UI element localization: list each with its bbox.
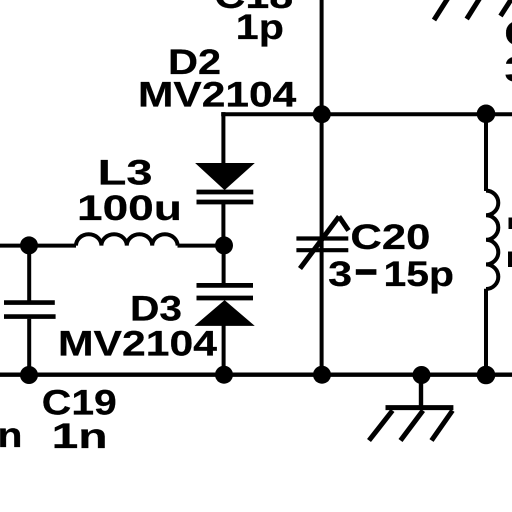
- wire vertical from C18 through C20 to bottom: [320, 0, 324, 375]
- capacitor C19 plates: [4, 303, 56, 317]
- svg-text:3: 3: [328, 254, 352, 294]
- wire right branch bottom: [484, 289, 488, 375]
- wire L3 to middle node: [178, 244, 225, 248]
- wire left input to L3: [0, 244, 76, 248]
- wire top horizontal net: [221, 112, 512, 116]
- label partial right coil line2: [508, 252, 512, 268]
- node junction top C20: [313, 105, 331, 123]
- svg-text:D3: D3: [130, 289, 182, 329]
- wire D2 top corner vertical: [221, 112, 225, 164]
- diode D2 cathode bars: [197, 192, 254, 202]
- wire bottom horizontal net: [0, 373, 512, 377]
- svg-text:MV2104: MV2104: [138, 75, 297, 115]
- svg-text:1p: 1p: [236, 7, 284, 47]
- node junction bottom C20: [313, 366, 331, 384]
- node junction bottom D3: [215, 366, 233, 384]
- ground symbol bottom: [369, 375, 453, 441]
- wire D3 anode to bottom net: [222, 324, 226, 375]
- diode D3 triangle (pointing up): [196, 301, 254, 326]
- svg-text:L3: L3: [98, 152, 153, 192]
- svg-text:MV2104: MV2104: [58, 324, 217, 364]
- capacitor C20 arrow: [300, 217, 349, 269]
- diode D2 triangle (varactor, cathode down): [196, 164, 253, 190]
- ground symbol top right (partial): [434, 0, 512, 20]
- node junction top right coil: [477, 105, 496, 124]
- capacitor C20 plates (variable): [296, 239, 348, 251]
- wire D2 cathode to middle node: [221, 203, 225, 247]
- wire C19 bottom leg: [27, 319, 31, 375]
- svg-text:100u: 100u: [77, 188, 182, 228]
- node junction left L3 input: [20, 236, 38, 254]
- node junction bottom right coil: [477, 366, 496, 385]
- inductor L3 coil: [76, 234, 178, 245]
- svg-text:1n: 1n: [52, 416, 108, 456]
- label partial right coil line1: [509, 218, 512, 230]
- node junction middle (D2/D3/L3): [215, 236, 233, 254]
- inductor L4 (right coil): [486, 191, 498, 289]
- svg-text:C: C: [504, 14, 512, 54]
- svg-text:15p: 15p: [384, 254, 455, 294]
- wire C19 top leg: [27, 246, 31, 301]
- node junction bottom left C19: [20, 366, 38, 384]
- diode D3 cathode bars (cathode up): [197, 285, 254, 298]
- wire right branch top: [484, 114, 488, 191]
- node junction ground: [413, 366, 431, 384]
- wire middle node to D3: [222, 246, 226, 285]
- svg-text:3: 3: [505, 50, 512, 90]
- svg-text:n: n: [0, 415, 23, 455]
- svg-text:C20: C20: [350, 217, 430, 257]
